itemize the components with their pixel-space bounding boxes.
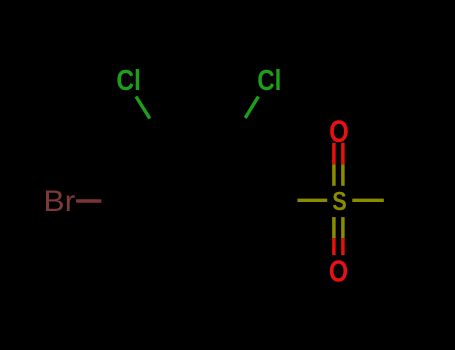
svg-text:O: O <box>329 115 349 150</box>
double bond S=O (bottom), olive halves <box>332 217 336 238</box>
bond C3-S (olive half) <box>297 199 327 202</box>
svg-text:O: O <box>329 254 348 288</box>
bond C1-Cl (green half) <box>136 97 150 119</box>
double bond S=O (top), red halves <box>332 143 336 164</box>
double bond S=O (top), olive halves <box>332 164 336 185</box>
svg-text:S: S <box>332 187 347 216</box>
bond C6-Br (maroon half) <box>76 199 101 202</box>
benzene ring (carbon bonds, black on black) <box>126 140 268 263</box>
bond S-CH3 (olive half) <box>352 199 384 202</box>
svg-text:Br: Br <box>43 184 75 218</box>
double bond S=O (bottom), red halves <box>332 238 336 255</box>
svg-text:Cl: Cl <box>116 64 141 96</box>
svg-text:Cl: Cl <box>257 64 281 97</box>
bond C2-Cl (green half) <box>245 97 258 119</box>
